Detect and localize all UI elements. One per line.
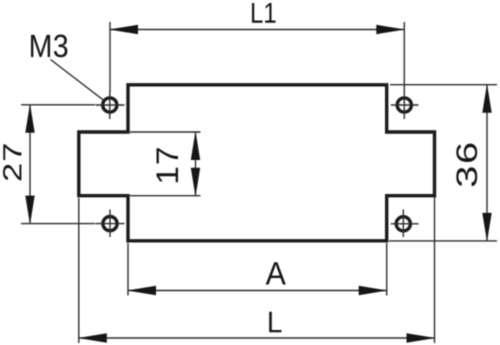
extension line 36 top (from body top edge)	[390, 84, 497, 86]
extension line 17 bottom (from tab bottom step)	[130, 195, 201, 197]
dimension line L	[79, 337, 435, 339]
extension line 27 top (to top-left hole)	[21, 104, 95, 106]
extension line L1 left (to top-left hole)	[109, 22, 111, 92]
extension line 27 bottom (to bottom-left hole)	[21, 223, 95, 225]
dimension A (cutout body width, bottom)	[127, 243, 388, 296]
value text L	[269, 312, 281, 332]
dimension line L1	[110, 29, 404, 31]
arrowhead 17 bottom	[191, 168, 200, 197]
arrowhead A left	[127, 286, 156, 295]
housing cutout outline (cross-shaped body with left/right tabs)	[79, 85, 435, 241]
dimension line A	[128, 290, 387, 292]
value text 27 (rotated)	[3, 144, 21, 180]
arrowhead L left	[78, 333, 107, 342]
dimension L1 (horizontal hole spacing, top)	[109, 3, 405, 92]
dimension line 17	[195, 132, 197, 196]
dimension 27 (vertical hole spacing, left)	[3, 104, 95, 225]
hole bottom-right (M3 tapped hole)	[391, 210, 419, 238]
arrowhead A right	[359, 286, 388, 295]
arrowhead 27 bottom	[25, 196, 34, 225]
arrowhead 36 bottom	[482, 213, 491, 242]
dimension line 27	[29, 105, 31, 224]
extension line 36 bottom (from body bottom edge)	[389, 240, 497, 242]
value text 36 (rotated)	[456, 144, 477, 187]
leader line from M3 label to top-left hole	[51, 60, 104, 101]
hole bottom-left (M3 tapped hole)	[96, 210, 125, 238]
dimension 17 (tab height)	[130, 131, 201, 197]
value text A	[266, 262, 286, 284]
dimension 36 (cutout height, right)	[389, 84, 497, 242]
dimension line 36	[486, 85, 488, 241]
value text 17 (rotated)	[157, 148, 179, 182]
dimension L (overall width, bottom)	[78, 197, 436, 343]
hole top-left (M3 tapped hole)	[96, 92, 125, 120]
value text L1	[252, 3, 276, 23]
extension line 17 top (from tab top step)	[130, 131, 201, 133]
arrowhead 27 top	[25, 104, 34, 133]
extension line A left (from body left edge)	[127, 243, 129, 296]
arrowhead 36 top	[482, 84, 491, 113]
arrowhead L right	[407, 333, 436, 342]
extension line L left (from left tab edge)	[78, 198, 80, 343]
arrowhead 17 top	[191, 131, 200, 160]
extension line L1 right (to top-right hole)	[403, 22, 405, 92]
extension line A right (from body right edge)	[386, 243, 388, 296]
extension line L right (from right tab edge)	[434, 197, 436, 343]
arrowhead L1 left	[109, 25, 138, 34]
label M3 (thread size callout)	[31, 35, 67, 58]
hole top-right (M3 tapped hole)	[391, 92, 419, 120]
arrowhead L1 right	[376, 25, 405, 34]
